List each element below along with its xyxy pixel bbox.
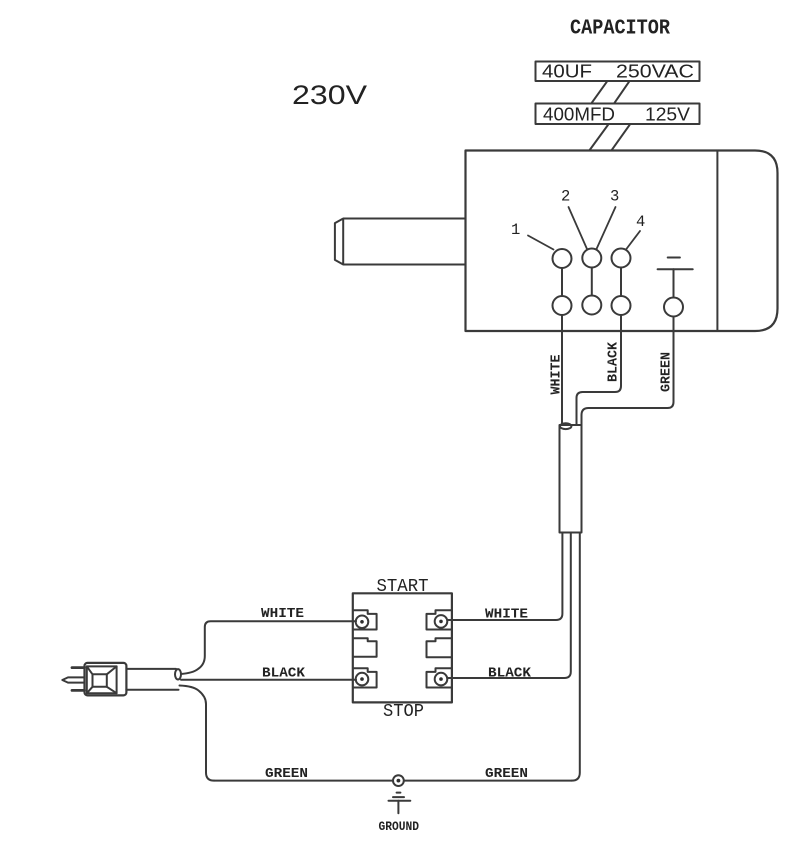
wire green from plug to bottom run bbox=[180, 686, 215, 781]
plug ground pin bbox=[62, 677, 84, 682]
label WHITE vertical bbox=[549, 355, 565, 395]
svg-text:250VAC: 250VAC bbox=[616, 62, 694, 82]
svg-text:40UF: 40UF bbox=[542, 62, 592, 82]
ground symbol bbox=[389, 793, 411, 814]
wire black from sheath to switch right bbox=[448, 533, 571, 679]
label CAPACITOR bbox=[570, 18, 670, 41]
cable sheath bbox=[560, 423, 582, 532]
motor end-cap line bbox=[716, 151, 718, 332]
label WHITE right bbox=[485, 607, 528, 623]
wire black from plug to switch left bbox=[181, 679, 356, 681]
svg-text:GROUND: GROUND bbox=[379, 820, 420, 834]
pin label 1 bbox=[511, 221, 554, 250]
wire white from motor terminal to sheath bbox=[561, 315, 563, 425]
wire green bottom run bbox=[214, 780, 572, 782]
svg-text:GREEN: GREEN bbox=[265, 766, 308, 782]
motor terminal column 2 bbox=[582, 249, 601, 315]
motor body bbox=[466, 151, 778, 332]
svg-text:4: 4 bbox=[636, 213, 645, 231]
svg-text:400MFD: 400MFD bbox=[543, 105, 615, 125]
wire green from motor ground terminal to sheath bbox=[582, 317, 674, 426]
switch terminal bottom-left bbox=[354, 668, 377, 687]
switch tab middle-left bbox=[354, 638, 377, 657]
wire black from motor terminal to sheath bbox=[577, 315, 622, 424]
wire white from plug to switch left bbox=[181, 621, 356, 674]
capacitor value box C2: 400MFD 125V bbox=[536, 104, 700, 125]
label GROUND bbox=[379, 820, 420, 834]
svg-text:START: START bbox=[377, 577, 429, 597]
power cord bbox=[126, 669, 181, 690]
svg-text:BLACK: BLACK bbox=[262, 666, 306, 682]
svg-text:CAPACITOR: CAPACITOR bbox=[570, 18, 670, 41]
label 230V bbox=[292, 80, 367, 110]
switch terminal bottom-right bbox=[427, 668, 451, 687]
svg-text:STOP: STOP bbox=[383, 702, 424, 722]
label BLACK right bbox=[488, 666, 532, 682]
svg-text:BLACK: BLACK bbox=[488, 666, 532, 682]
motor ground terminal with earth symbol bbox=[658, 258, 693, 317]
svg-text:3: 3 bbox=[610, 188, 619, 206]
label BLACK left bbox=[262, 666, 306, 682]
leader lines from motor to box C2 bbox=[590, 125, 630, 150]
label START bbox=[377, 577, 429, 597]
svg-text:WHITE: WHITE bbox=[549, 355, 565, 395]
capacitor value box C1: 40UF 250VAC bbox=[536, 62, 700, 82]
pin label 4 bbox=[626, 213, 645, 250]
wire white from sheath to switch right bbox=[448, 533, 563, 621]
label BLACK vertical bbox=[606, 341, 622, 382]
label STOP bbox=[383, 702, 424, 722]
wire green riser sheath to bottom run bbox=[572, 533, 580, 781]
plug face detail bbox=[87, 666, 117, 693]
svg-text:BLACK: BLACK bbox=[606, 341, 622, 382]
pin label 3 bbox=[597, 188, 620, 250]
motor terminal column 3 (black) bbox=[612, 249, 631, 316]
label GREEN left bbox=[265, 766, 308, 782]
svg-text:230V: 230V bbox=[292, 80, 367, 110]
switch body bbox=[353, 593, 452, 702]
label GREEN vertical bbox=[659, 352, 675, 392]
switch tab middle-right bbox=[427, 638, 451, 657]
motor shaft bbox=[335, 219, 466, 265]
plug prong top bbox=[72, 666, 85, 669]
switch terminal top-right bbox=[427, 610, 451, 629]
svg-text:GREEN: GREEN bbox=[485, 766, 528, 782]
svg-text:WHITE: WHITE bbox=[261, 606, 304, 622]
svg-text:125V: 125V bbox=[645, 105, 690, 125]
svg-text:GREEN: GREEN bbox=[659, 352, 675, 392]
switch terminal top-left bbox=[354, 610, 377, 629]
plug prong bottom bbox=[72, 689, 85, 692]
motor terminal column 1 (white) bbox=[553, 249, 572, 315]
ground tap node on green run bbox=[393, 775, 404, 786]
svg-text:2: 2 bbox=[561, 188, 570, 206]
leader lines from box C2 to box C1 bbox=[591, 82, 629, 104]
plug body bbox=[85, 663, 127, 696]
pin label 2 bbox=[561, 188, 587, 250]
label WHITE left bbox=[261, 606, 304, 622]
svg-text:1: 1 bbox=[511, 221, 520, 239]
label GREEN right bbox=[485, 766, 528, 782]
